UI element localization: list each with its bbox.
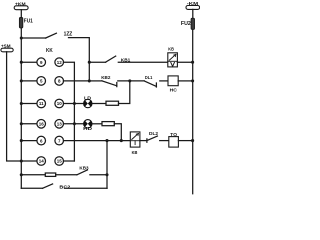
fuse FU2 [191, 18, 194, 29]
wire KB2 to DL1 [118, 80, 144, 82]
wire KB3 rung left [21, 174, 45, 176]
node central bus KB2 [88, 79, 91, 82]
resistor LD [106, 101, 119, 105]
node KB rung riser bottom left [105, 139, 108, 142]
svg-text:DL1: DL1 [145, 75, 153, 80]
wire riser x107 [106, 141, 108, 189]
wire row5 left stub [21, 140, 37, 142]
wire resistor to KB3 [56, 174, 77, 176]
contact KK-5 [37, 77, 46, 86]
lamp LD [84, 99, 93, 108]
wire left bus [20, 28, 22, 188]
svg-text:16: 16 [39, 122, 45, 127]
wire BC2 rung left [21, 187, 42, 189]
wire TQ to right bus [178, 140, 192, 142]
svg-text:14: 14 [39, 159, 45, 164]
contact BC2 blade [43, 184, 53, 188]
contact KK-16 [37, 120, 46, 129]
node right bus KB1 [191, 61, 194, 64]
contact KB1 blade [106, 56, 116, 62]
wire row6 right stub [64, 160, 75, 162]
contact DL2 [147, 136, 158, 142]
svg-text:+KM: +KM [15, 1, 26, 6]
contact KB2 blade [102, 81, 117, 87]
wire row5 to relay KB coil [64, 140, 131, 142]
svg-text:+SM: +SM [1, 44, 11, 49]
wire +SM bus [7, 52, 22, 161]
node bus KB3 [20, 173, 23, 176]
wire HC to right bus [178, 80, 192, 82]
contact KB3 blade [77, 170, 88, 175]
svg-text:KK: KK [46, 48, 53, 54]
wire LD resistor to riser up [119, 81, 130, 104]
annunciator HC [168, 76, 178, 86]
node riser LD join [128, 79, 131, 82]
svg-text:11: 11 [39, 101, 44, 106]
contact DL1 blade [144, 81, 156, 87]
svg-text:FU1: FU1 [24, 18, 33, 24]
lamp HD [84, 120, 93, 129]
wire KB3 rung right [90, 174, 107, 176]
contact KK-10 [55, 99, 64, 108]
relay KB voltage element U1 [168, 53, 178, 67]
node KB3 riser [105, 173, 108, 176]
wire row1 left stub [21, 61, 37, 63]
svg-text:-KM: -KM [187, 1, 199, 6]
wire KB1 rung left [89, 61, 105, 63]
resistor HD [102, 122, 114, 126]
contact KK-9 [37, 58, 46, 67]
svg-text:FU2: FU2 [181, 21, 191, 27]
relay KB coil [130, 132, 140, 147]
switch 1ZZ blade [46, 33, 57, 38]
wire KB1 rung right [118, 61, 168, 63]
node riser row4 [73, 122, 76, 125]
node bus row2 [20, 79, 23, 82]
node bus row1 [20, 61, 23, 64]
terminal +KM [14, 6, 28, 10]
contact KK-8 [55, 77, 64, 86]
node right bus HC [191, 79, 194, 82]
wire 1ZZ rung right + central bus [69, 38, 90, 81]
svg-text:KB3: KB3 [79, 165, 89, 170]
svg-text:1ZZ: 1ZZ [64, 32, 73, 38]
wire HD resistor to riser down [114, 124, 121, 141]
wire row2 right stub to central bus [64, 80, 90, 82]
resistor KB3 [45, 173, 55, 176]
svg-text:HD: HD [83, 126, 92, 132]
svg-text:HC: HC [170, 88, 178, 94]
svg-text:15: 15 [57, 159, 63, 164]
wire -KM drop [192, 9, 194, 18]
wire row1 right stub to riser [64, 62, 75, 161]
terminal +SM [1, 48, 13, 52]
svg-text:10: 10 [57, 101, 63, 106]
wire BC2 rung right [65, 187, 108, 189]
node KB rung riser HD [120, 139, 123, 142]
wire KB coil to DL2 [140, 140, 147, 142]
wire row3 to lamp LD [64, 103, 84, 105]
wire DL1 to HC [160, 80, 168, 82]
wire row6 left stub [21, 160, 37, 162]
svg-text:13: 13 [57, 122, 63, 127]
wire row4 to lamp HD [64, 123, 84, 125]
fuse FU1 [19, 18, 22, 29]
node bus row5 [20, 139, 23, 142]
node bus row3 [20, 102, 23, 105]
contact KK-14 [37, 157, 46, 166]
wire right bus [192, 29, 194, 193]
svg-text:KB: KB [132, 150, 138, 155]
contact KK-6 [37, 136, 46, 145]
wire row2 left stub [21, 80, 37, 82]
wire KB2 rung left [89, 80, 102, 82]
node central bus KB1 [88, 61, 91, 64]
terminal -KM [186, 6, 200, 10]
contact KK-11 [37, 99, 46, 108]
contact KK-15 [55, 157, 64, 166]
wire DL2 to TQ [160, 140, 169, 142]
svg-text:12: 12 [57, 60, 63, 65]
wire 1ZZ rung left [21, 37, 45, 39]
node bus row4 [20, 122, 23, 125]
wire row4 left stub [21, 123, 37, 125]
wire +KM drop [20, 10, 22, 18]
contact KK-7 [55, 136, 64, 145]
wire row3 left stub [21, 103, 37, 105]
label V [171, 62, 175, 66]
node junction 1ZZ takeoff [20, 36, 23, 39]
wire HD to resistor [92, 123, 102, 125]
svg-text:KB: KB [168, 47, 174, 52]
wire LD to resistor [92, 103, 106, 105]
solenoid TQ [169, 137, 179, 148]
wire KB to right bus [177, 61, 192, 63]
node right bus TQ [191, 139, 194, 142]
node bus row6 [20, 159, 23, 162]
svg-text:DL2: DL2 [149, 131, 158, 137]
contact KK-12 [55, 58, 64, 67]
svg-text:KB2: KB2 [101, 75, 111, 81]
node riser row3 [73, 102, 76, 105]
contact KK-13 [55, 120, 64, 129]
